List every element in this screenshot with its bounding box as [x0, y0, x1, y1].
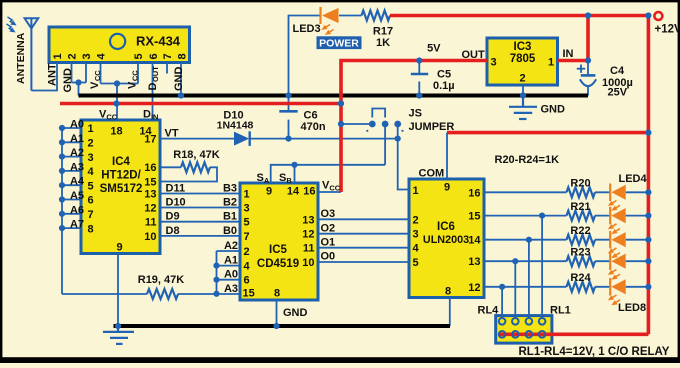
svg-text:3: 3: [81, 53, 93, 59]
svg-text:RL4: RL4: [478, 305, 500, 317]
+12V branch to IC3 IN (red): [558, 16, 589, 61]
svg-text:25V: 25V: [608, 87, 628, 99]
relay drop wire RL1: [541, 216, 543, 318]
svg-text:C5: C5: [437, 69, 451, 81]
svg-text:B2: B2: [223, 197, 237, 209]
svg-text:5: 5: [133, 53, 145, 59]
svg-text:4: 4: [244, 261, 251, 273]
wire D9 to B1: [160, 221, 240, 223]
svg-text:16: 16: [144, 162, 156, 174]
svg-text:1: 1: [548, 57, 554, 69]
capacitor C5: [411, 61, 428, 96]
output row pin15 with resistor R21: [484, 215, 567, 217]
svg-text:RX-434: RX-434: [136, 34, 181, 49]
RX pin7 stub: [166, 63, 168, 74]
output row pin13 with resistor R23: [484, 260, 567, 262]
svg-text:10: 10: [144, 231, 156, 243]
svg-text:4: 4: [413, 243, 420, 255]
svg-text:D8: D8: [166, 225, 180, 237]
svg-text:15: 15: [243, 288, 255, 300]
svg-text:CD4519: CD4519: [257, 258, 299, 270]
svg-text:9: 9: [116, 242, 122, 254]
jumper JS wiring: [341, 124, 398, 165]
svg-text:10: 10: [302, 257, 314, 269]
svg-text:O1: O1: [321, 236, 336, 248]
wire LED3 cathode to GND rail: [289, 16, 321, 96]
wire IC5 pin8 to GND rail: [276, 300, 278, 326]
jumper cap bracket: [372, 109, 385, 118]
svg-text:JS: JS: [409, 108, 422, 120]
svg-text:1N4148: 1N4148: [217, 120, 254, 132]
svg-text:17: 17: [144, 134, 156, 146]
GND rail top (black): [79, 94, 589, 98]
relay drop wire RL4: [501, 287, 503, 318]
svg-text:A0: A0: [224, 269, 238, 281]
svg-text:A1: A1: [224, 255, 238, 267]
wire RX pins 4,5 Vcc: [101, 63, 139, 104]
+12V rail top (red): [390, 14, 648, 18]
svg-text:GND: GND: [62, 68, 74, 93]
relay connector holes: [499, 318, 546, 338]
svg-text:+12V: +12V: [655, 23, 680, 35]
wire O0 row: [318, 261, 409, 263]
diode D10 1N4148: [234, 131, 250, 146]
svg-text:LED3: LED3: [293, 23, 321, 35]
wire O2 row: [318, 233, 409, 235]
svg-text:9: 9: [266, 186, 272, 198]
svg-text:R23: R23: [570, 246, 590, 258]
svg-text:VT: VT: [165, 128, 179, 140]
svg-text:R24: R24: [570, 272, 591, 284]
relay drop wire RL3: [514, 261, 516, 318]
svg-text:3: 3: [244, 203, 250, 215]
svg-text:5: 5: [413, 257, 419, 269]
svg-text:B3: B3: [223, 183, 237, 195]
wire D10 to B2: [160, 207, 240, 209]
wire IC6 COM pin9: [446, 133, 448, 179]
svg-text:6: 6: [244, 275, 250, 287]
svg-text:B1: B1: [223, 211, 237, 223]
svg-text:16: 16: [303, 186, 315, 198]
antenna: [25, 18, 39, 90]
wire D11 to B3: [160, 193, 240, 195]
svg-text:12: 12: [302, 229, 314, 241]
svg-text:LED4: LED4: [619, 173, 648, 185]
wire IC4 pin18 Vcc: [116, 104, 118, 121]
5V rail left (red): [60, 102, 341, 106]
svg-text:1: 1: [413, 185, 419, 197]
svg-text:6: 6: [88, 195, 94, 207]
svg-text:R19, 47K: R19, 47K: [138, 274, 185, 286]
svg-text:GND: GND: [283, 307, 308, 319]
+12V COM row (red): [447, 131, 648, 135]
wire D8 to B0: [160, 235, 240, 237]
svg-text:A0: A0: [70, 119, 84, 131]
svg-text:R22: R22: [570, 225, 590, 237]
svg-text:A1: A1: [70, 133, 84, 145]
output row pin14 with resistor R22: [484, 239, 567, 241]
svg-text:ANTENNA: ANTENNA: [15, 32, 27, 84]
svg-text:18: 18: [110, 126, 122, 138]
svg-text:A7: A7: [70, 219, 84, 231]
ground IC3: [509, 96, 537, 120]
svg-text:GND: GND: [173, 67, 185, 92]
svg-text:HT12D/: HT12D/: [101, 170, 141, 182]
wire antenna to RX pin1: [31, 63, 57, 91]
GND rail bottom (black): [114, 324, 451, 328]
svg-text:A4: A4: [70, 176, 85, 188]
+12V right vertical (red): [499, 16, 648, 335]
svg-text:4: 4: [88, 166, 95, 178]
RX-434 logo circle: [110, 34, 125, 49]
svg-text:C4: C4: [610, 65, 625, 77]
svg-text:7: 7: [162, 53, 174, 59]
svg-text:13: 13: [468, 256, 480, 268]
svg-text:D11: D11: [166, 183, 186, 195]
svg-text:ULN2003: ULN2003: [423, 234, 469, 246]
5V net vertical and OUT row (red): [341, 61, 487, 193]
svg-text:B0: B0: [223, 225, 237, 237]
svg-text:GND: GND: [541, 104, 566, 116]
svg-text:3: 3: [491, 57, 497, 69]
wire VT row: [160, 138, 398, 140]
jumper JS pins: [366, 121, 403, 132]
LED8: [609, 278, 611, 296]
svg-text:JUMPER: JUMPER: [409, 121, 455, 133]
svg-text:2: 2: [520, 73, 526, 85]
svg-text:8: 8: [88, 223, 94, 235]
svg-text:16: 16: [468, 187, 480, 199]
wire IC5 select SA SB to jumper: [271, 165, 385, 183]
svg-text:7805: 7805: [510, 53, 536, 65]
svg-text:8: 8: [445, 286, 451, 298]
svg-text:IC6: IC6: [437, 221, 455, 233]
svg-text:4: 4: [96, 53, 108, 60]
svg-text:1: 1: [244, 189, 250, 201]
svg-text:15: 15: [468, 211, 480, 223]
svg-text:D9: D9: [166, 211, 180, 223]
svg-text:8: 8: [177, 53, 189, 59]
svg-text:O2: O2: [321, 222, 336, 234]
svg-text:2: 2: [413, 214, 419, 226]
svg-text:13: 13: [144, 188, 156, 200]
svg-text:1: 1: [52, 53, 64, 59]
svg-text:R20-R24=1K: R20-R24=1K: [495, 154, 560, 166]
relay drop wire RL2: [528, 240, 530, 318]
svg-text:A5: A5: [70, 190, 84, 202]
wire LED3 anode to R17: [339, 15, 362, 17]
svg-text:12: 12: [144, 202, 156, 214]
output row pin12 with resistor R24: [484, 286, 567, 288]
svg-text:IN: IN: [563, 48, 574, 60]
+12V terminal: [654, 12, 662, 20]
svg-text:R18, 47K: R18, 47K: [173, 149, 220, 161]
svg-text:5V: 5V: [427, 42, 441, 54]
svg-text:15: 15: [144, 176, 156, 188]
svg-text:IC5: IC5: [269, 244, 288, 256]
svg-text:SM5172: SM5172: [100, 183, 143, 195]
svg-text:11: 11: [303, 243, 315, 255]
svg-text:RL1: RL1: [550, 305, 571, 317]
IC3 7805 body: [487, 38, 558, 85]
svg-text:8: 8: [274, 288, 280, 300]
svg-text:POWER: POWER: [319, 38, 359, 50]
svg-text:11: 11: [145, 217, 157, 229]
svg-text:R21: R21: [570, 201, 590, 213]
svg-text:C6: C6: [304, 110, 318, 122]
wire IC4 pin9 to GND: [117, 254, 119, 327]
svg-text:ANT: ANT: [47, 63, 59, 86]
svg-text:2: 2: [244, 246, 250, 258]
capacitor C4 electrolytic: [577, 61, 596, 96]
svg-text:O0: O0: [321, 251, 336, 263]
wire IC6 pin8 to GND rail: [449, 298, 451, 327]
svg-text:14: 14: [468, 235, 481, 247]
resistor R18 between IC4 pins 16,15: [160, 166, 181, 168]
svg-text:R20: R20: [570, 178, 590, 190]
svg-text:1K: 1K: [376, 37, 390, 49]
wire O3 row: [318, 218, 409, 220]
svg-text:LED8: LED8: [618, 302, 646, 314]
svg-text:COM: COM: [419, 168, 445, 180]
svg-text:A6: A6: [70, 204, 84, 216]
LED5: [609, 207, 611, 225]
wire RX pins 2,3 to GND rail: [72, 63, 87, 96]
svg-text:13: 13: [302, 214, 314, 226]
svg-text:IC4: IC4: [112, 156, 131, 168]
LED7: [609, 252, 611, 270]
svg-text:A3: A3: [70, 161, 84, 173]
POWER badge: [317, 36, 362, 49]
svg-text:O3: O3: [321, 208, 336, 220]
svg-text:9: 9: [444, 182, 450, 194]
IC4 HT12D/SM5172 body: [81, 120, 160, 254]
wire RX pin6 Dout to IC4 Din: [152, 63, 154, 121]
svg-text:7: 7: [88, 209, 94, 221]
svg-text:7: 7: [244, 231, 250, 243]
wire IC5 pin16 Vcc: [318, 191, 341, 193]
LED6: [609, 231, 611, 249]
svg-text:14: 14: [287, 186, 300, 198]
resistor R19: [62, 293, 147, 295]
IC6 ULN2003 body: [409, 179, 484, 298]
svg-text:5: 5: [88, 180, 94, 192]
IC4 address bus A0-A7: [62, 128, 81, 294]
svg-text:OUT: OUT: [462, 49, 486, 61]
wire O1 row: [318, 247, 409, 249]
LED3 power indicator: [319, 7, 321, 24]
IC5 CD4519 body: [240, 183, 318, 300]
svg-text:5: 5: [244, 217, 250, 229]
relay connector RL1-RL4: [496, 316, 552, 344]
svg-text:IC3: IC3: [514, 41, 532, 53]
svg-text:2: 2: [67, 53, 79, 59]
IC5 address tie bus A2,A1,A0,A3: [217, 251, 241, 294]
wire IC3 pin2 to GND rail: [522, 85, 524, 96]
svg-text:D10: D10: [166, 197, 186, 209]
ground IC4 pin9: [103, 326, 134, 344]
svg-text:470n: 470n: [301, 121, 326, 133]
svg-text:6: 6: [148, 53, 160, 59]
svg-text:RL1-RL4=12V, 1 C/O RELAY: RL1-RL4=12V, 1 C/O RELAY: [519, 346, 670, 358]
resistor R17: [362, 11, 390, 21]
LED4: [609, 184, 611, 202]
receiver module RX-434: [49, 27, 190, 63]
capacitor C6: [279, 98, 297, 139]
svg-text:3: 3: [413, 229, 419, 241]
svg-text:1: 1: [88, 123, 94, 135]
wire VT node to IC6 pin1: [398, 139, 409, 190]
wire RX pin8 to GND rail: [180, 63, 182, 96]
svg-text:R17: R17: [373, 26, 393, 38]
svg-text:A3: A3: [224, 283, 238, 295]
output row pin16 with resistor R20: [484, 191, 567, 193]
svg-text:3: 3: [88, 152, 94, 164]
svg-text:0.1µ: 0.1µ: [433, 80, 455, 92]
svg-text:2: 2: [88, 138, 94, 150]
svg-text:12: 12: [468, 282, 480, 294]
svg-text:A2: A2: [70, 147, 84, 159]
incoming RF wave arrows: [7, 17, 16, 32]
svg-text:A2: A2: [224, 240, 238, 252]
